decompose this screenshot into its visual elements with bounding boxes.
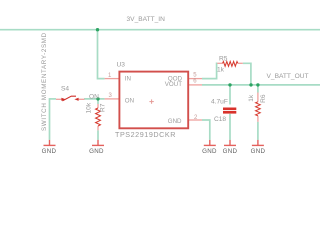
svg-text:ON: ON — [125, 98, 134, 105]
svg-text:3V_BATT_IN: 3V_BATT_IN — [127, 16, 166, 23]
svg-text:1k: 1k — [217, 66, 225, 73]
svg-text:GND: GND — [168, 118, 182, 125]
svg-text:R5: R5 — [219, 56, 228, 63]
svg-text:1k: 1k — [248, 94, 255, 102]
svg-text:C18: C18 — [214, 116, 226, 123]
svg-text:GND: GND — [42, 148, 57, 155]
svg-text:V_BATT_OUT: V_BATT_OUT — [267, 73, 309, 80]
svg-text:IN: IN — [125, 76, 131, 83]
svg-text:GND: GND — [202, 148, 217, 155]
svg-text:ON: ON — [89, 94, 99, 101]
svg-text:GND: GND — [223, 148, 238, 155]
svg-text:10k: 10k — [86, 102, 93, 113]
svg-text:TPS22919DCKR: TPS22919DCKR — [115, 130, 176, 139]
svg-text:U3: U3 — [117, 62, 126, 69]
svg-text:GND: GND — [89, 148, 104, 155]
svg-text:4.7uF: 4.7uF — [211, 99, 228, 106]
svg-text:S4: S4 — [61, 85, 69, 92]
svg-text:GND: GND — [251, 148, 266, 155]
svg-text:R6: R6 — [260, 94, 267, 103]
svg-text:R7: R7 — [100, 103, 107, 112]
svg-text:SWITCH MOMENTARY-2SMD: SWITCH MOMENTARY-2SMD — [41, 32, 48, 131]
svg-text:VOUT: VOUT — [165, 81, 182, 88]
